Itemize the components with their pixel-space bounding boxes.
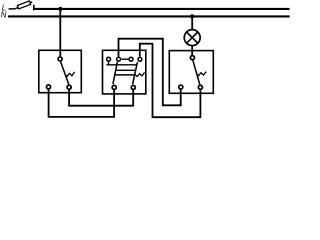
svg-text:N: N [1,10,7,19]
